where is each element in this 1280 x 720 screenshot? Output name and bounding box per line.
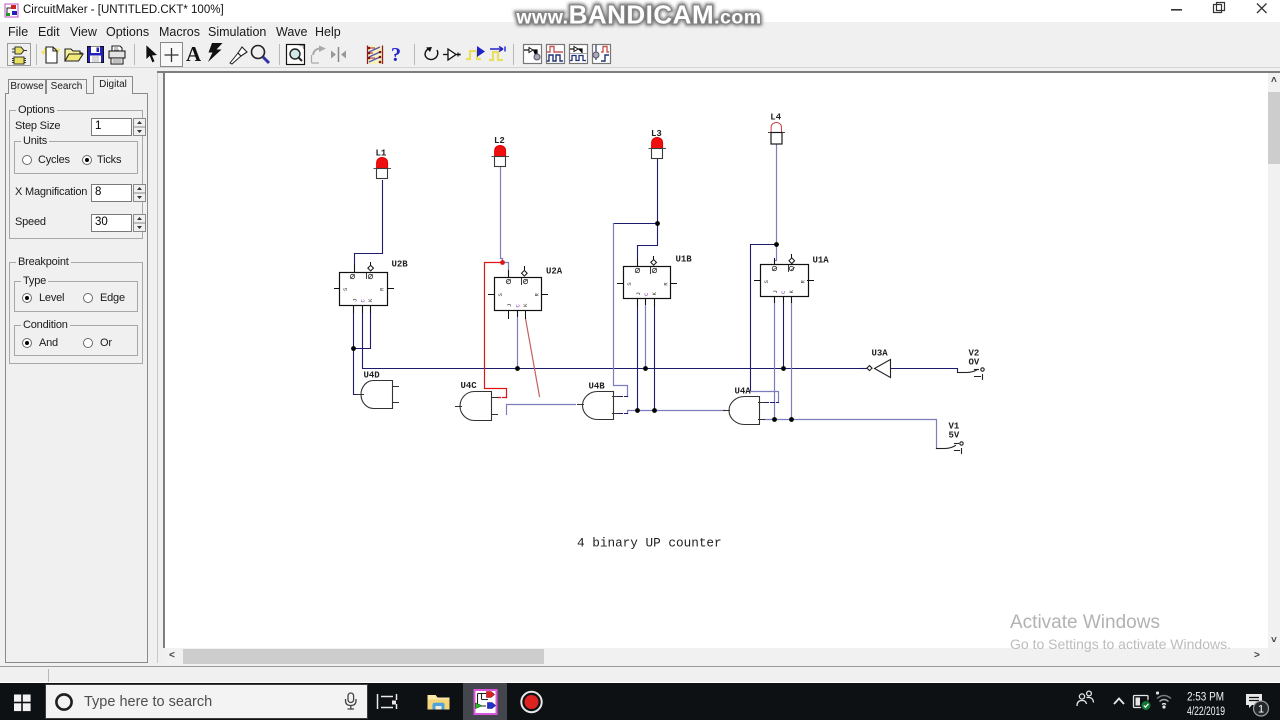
svg-text:U1B: U1B — [676, 255, 693, 265]
svg-text:U2B: U2B — [392, 260, 409, 270]
svg-text:4/22/2019: 4/22/2019 — [1187, 706, 1225, 718]
svg-text:U4B: U4B — [589, 382, 606, 392]
svg-text:J: J — [352, 299, 359, 302]
svg-text:L3: L3 — [651, 129, 662, 139]
svg-text:U2A: U2A — [546, 267, 563, 277]
svg-text:J: J — [635, 292, 642, 295]
svg-text:5V: 5V — [949, 431, 960, 441]
svg-text:U4C: U4C — [461, 381, 478, 391]
svg-text:www.BANDICAM.com: www.BANDICAM.com — [515, 0, 761, 30]
svg-text:J: J — [506, 304, 513, 307]
svg-text:J: J — [772, 290, 779, 293]
svg-text:U1A: U1A — [813, 256, 830, 266]
svg-text:L2: L2 — [494, 136, 505, 146]
svg-text:U4D: U4D — [364, 371, 381, 381]
svg-text:1: 1 — [1258, 704, 1264, 716]
svg-text:U3A: U3A — [872, 349, 889, 359]
svg-text:OV: OV — [969, 358, 980, 368]
svg-text:U4A: U4A — [735, 387, 752, 397]
svg-text:L4: L4 — [770, 113, 781, 123]
svg-text:L1: L1 — [376, 149, 387, 159]
svg-text:2:53 PM: 2:53 PM — [1187, 692, 1224, 704]
svg-text:4 binary UP counter: 4 binary UP counter — [577, 536, 722, 551]
